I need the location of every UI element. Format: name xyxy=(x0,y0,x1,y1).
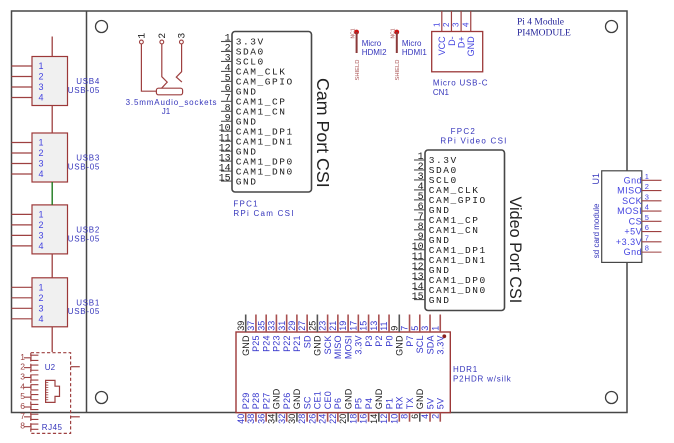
svg-text:GND: GND xyxy=(429,295,451,306)
svg-text:3: 3 xyxy=(39,303,44,313)
svg-text:P3: P3 xyxy=(364,335,374,346)
svg-text:GND: GND xyxy=(236,176,258,187)
svg-text:3.5mmAudio_sockets: 3.5mmAudio_sockets xyxy=(126,98,218,107)
svg-text:USB-05: USB-05 xyxy=(68,307,100,316)
svg-text:HDMI2: HDMI2 xyxy=(362,48,387,57)
svg-text:1: 1 xyxy=(39,61,44,71)
svg-text:P23: P23 xyxy=(272,335,282,352)
svg-text:MISO: MISO xyxy=(617,186,642,196)
connector USB3 (USB-05) xyxy=(12,133,101,182)
svg-text:USB3: USB3 xyxy=(76,154,100,163)
svg-text:+3.3V: +3.3V xyxy=(616,237,642,247)
svg-text:3.3V: 3.3V xyxy=(436,335,446,354)
svg-text:4: 4 xyxy=(461,22,470,27)
svg-text:SHIELD: SHIELD xyxy=(395,60,401,81)
svg-text:Micro: Micro xyxy=(362,39,382,48)
svg-text:35: 35 xyxy=(256,321,266,331)
svg-text:RPi Video CSI: RPi Video CSI xyxy=(440,137,507,146)
svg-text:3: 3 xyxy=(39,231,44,241)
svg-text:P4: P4 xyxy=(364,398,374,409)
svg-text:3: 3 xyxy=(20,371,25,381)
svg-text:Micro: Micro xyxy=(402,39,422,48)
svg-text:GND: GND xyxy=(374,388,384,409)
svg-text:37: 37 xyxy=(246,321,256,331)
mounting hole H4 xyxy=(606,392,618,404)
svg-text:12: 12 xyxy=(379,414,389,424)
svg-text:34: 34 xyxy=(267,414,277,424)
svg-text:28: 28 xyxy=(297,414,307,424)
wire USB4-USB3 xyxy=(51,106,53,134)
svg-text:1: 1 xyxy=(39,210,44,220)
svg-text:GND: GND xyxy=(241,335,251,356)
svg-text:2: 2 xyxy=(20,362,25,372)
svg-text:SCL: SCL xyxy=(415,335,425,353)
svg-text:GND: GND xyxy=(292,388,302,409)
svg-text:2: 2 xyxy=(39,148,44,158)
svg-text:P0: P0 xyxy=(384,335,394,346)
svg-text:GND: GND xyxy=(272,388,282,409)
svg-text:+5V: +5V xyxy=(624,227,642,237)
svg-text:5: 5 xyxy=(645,213,649,222)
svg-text:30: 30 xyxy=(287,414,297,424)
svg-text:4: 4 xyxy=(645,203,649,212)
svg-text:21: 21 xyxy=(328,321,338,331)
svg-text:P27: P27 xyxy=(261,393,271,410)
svg-text:3: 3 xyxy=(420,326,430,331)
svg-text:SCK: SCK xyxy=(622,196,642,206)
svg-text:RX: RX xyxy=(395,396,405,409)
svg-text:Micro USB-C: Micro USB-C xyxy=(433,79,488,88)
svg-text:VCC: VCC xyxy=(437,36,447,56)
connector U2 RJ45 xyxy=(20,352,80,434)
svg-text:Gnd: Gnd xyxy=(624,247,643,257)
svg-text:16: 16 xyxy=(359,414,369,424)
svg-text:P6: P6 xyxy=(333,398,343,409)
svg-text:2: 2 xyxy=(39,220,44,230)
svg-text:PI4MODULE: PI4MODULE xyxy=(517,29,571,39)
svg-text:3: 3 xyxy=(39,159,44,169)
svg-text:J1: J1 xyxy=(162,107,171,116)
svg-text:9: 9 xyxy=(389,326,399,331)
svg-text:HDR1: HDR1 xyxy=(453,365,478,374)
svg-text:1: 1 xyxy=(430,326,440,331)
svg-text:MOSI: MOSI xyxy=(343,335,353,359)
svg-text:8: 8 xyxy=(400,414,410,419)
svg-text:3: 3 xyxy=(452,22,461,27)
svg-text:6: 6 xyxy=(410,414,420,419)
svg-text:11: 11 xyxy=(379,321,389,330)
wire USB1-U2 xyxy=(51,327,53,352)
wire USB3-USB2 (green net) xyxy=(51,182,53,205)
svg-text:15: 15 xyxy=(359,321,369,331)
svg-text:22: 22 xyxy=(328,414,338,424)
svg-text:7: 7 xyxy=(20,411,25,421)
svg-text:1: 1 xyxy=(137,33,148,39)
svg-text:4: 4 xyxy=(39,93,44,103)
svg-text:USB4: USB4 xyxy=(76,77,100,86)
svg-text:2: 2 xyxy=(39,293,44,303)
svg-text:5V: 5V xyxy=(436,398,446,409)
svg-text:5V: 5V xyxy=(425,398,435,409)
mounting hole H1 xyxy=(96,21,108,33)
svg-text:1: 1 xyxy=(39,282,44,292)
svg-text:P5: P5 xyxy=(354,398,364,409)
svg-text:3.3V: 3.3V xyxy=(354,335,364,354)
svg-text:15: 15 xyxy=(219,173,231,184)
svg-text:SCK: SCK xyxy=(323,335,333,354)
svg-text:NC1: NC1 xyxy=(391,28,397,38)
svg-text:P24: P24 xyxy=(261,335,271,352)
svg-text:P2: P2 xyxy=(374,335,384,346)
wire USB2-USB1 xyxy=(51,254,53,278)
connector HDR1 P2HDR w/silk xyxy=(236,315,512,424)
svg-text:26: 26 xyxy=(307,414,317,424)
svg-text:3: 3 xyxy=(645,192,649,201)
connector Micro HDMI2 xyxy=(350,28,387,80)
svg-text:29: 29 xyxy=(287,321,297,331)
svg-text:5: 5 xyxy=(20,391,25,401)
svg-text:Pi 4 Module: Pi 4 Module xyxy=(517,18,564,28)
svg-text:MISO: MISO xyxy=(333,335,343,359)
mounting hole H2 xyxy=(606,21,618,33)
connector USB4 (USB-05) xyxy=(12,57,101,106)
IC U1 sd card module xyxy=(591,171,662,263)
svg-text:1: 1 xyxy=(645,172,649,181)
svg-text:4: 4 xyxy=(39,241,44,251)
svg-text:20: 20 xyxy=(338,414,348,424)
svg-text:MOSI: MOSI xyxy=(617,206,642,216)
svg-text:USB-05: USB-05 xyxy=(68,162,100,171)
svg-text:D+: D+ xyxy=(456,36,466,48)
svg-text:Video Port CSI: Video Port CSI xyxy=(506,197,524,304)
svg-text:39: 39 xyxy=(236,321,246,331)
svg-text:32: 32 xyxy=(277,414,287,424)
svg-text:8: 8 xyxy=(20,421,25,431)
svg-text:FPC2: FPC2 xyxy=(451,127,476,136)
svg-text:USB2: USB2 xyxy=(76,226,100,235)
svg-text:14: 14 xyxy=(369,414,379,424)
connector FPC2 RPi Video CSI xyxy=(412,127,524,311)
title Pi 4 Module xyxy=(517,18,571,39)
svg-text:CS: CS xyxy=(629,216,643,226)
svg-text:33: 33 xyxy=(267,321,277,331)
svg-text:P26: P26 xyxy=(282,393,292,410)
svg-text:4: 4 xyxy=(39,169,44,179)
svg-text:sd card module: sd card module xyxy=(592,203,601,258)
svg-text:2: 2 xyxy=(645,182,649,191)
svg-text:GND: GND xyxy=(466,36,476,57)
svg-text:13: 13 xyxy=(369,321,379,331)
svg-text:U2: U2 xyxy=(45,363,56,372)
svg-text:31: 31 xyxy=(277,321,287,331)
svg-text:GND: GND xyxy=(395,335,405,356)
svg-text:27: 27 xyxy=(297,321,307,331)
svg-text:1: 1 xyxy=(20,352,25,362)
svg-text:1: 1 xyxy=(432,22,441,27)
svg-text:P22: P22 xyxy=(282,335,292,352)
svg-text:CE0: CE0 xyxy=(323,391,333,409)
svg-text:USB1: USB1 xyxy=(76,298,100,307)
svg-text:TX: TX xyxy=(405,397,415,409)
svg-text:17: 17 xyxy=(348,321,358,331)
svg-text:19: 19 xyxy=(338,321,348,331)
svg-text:RJ45: RJ45 xyxy=(42,423,63,432)
svg-text:SD: SD xyxy=(302,335,312,348)
mounting hole H3 xyxy=(96,392,108,404)
svg-text:USB-05: USB-05 xyxy=(68,86,100,95)
svg-text:SC: SC xyxy=(302,396,312,409)
svg-text:4: 4 xyxy=(20,381,25,391)
connector USB2 (USB-05) xyxy=(12,205,101,254)
svg-text:P25: P25 xyxy=(251,335,261,352)
svg-text:25: 25 xyxy=(307,321,317,331)
svg-text:23: 23 xyxy=(318,321,328,331)
connector J1 3.5mmAudio_sockets xyxy=(126,33,218,116)
svg-text:2: 2 xyxy=(442,22,451,27)
svg-text:GND: GND xyxy=(313,335,323,356)
svg-text:36: 36 xyxy=(256,414,266,424)
svg-text:2: 2 xyxy=(39,72,44,82)
svg-text:6: 6 xyxy=(20,401,25,411)
svg-text:18: 18 xyxy=(348,414,358,424)
svg-text:15: 15 xyxy=(412,292,424,303)
svg-text:3: 3 xyxy=(177,33,188,39)
svg-text:8: 8 xyxy=(645,244,649,253)
svg-text:2: 2 xyxy=(158,33,169,39)
svg-text:Cam Port CSI: Cam Port CSI xyxy=(313,78,333,188)
svg-text:3: 3 xyxy=(39,82,44,92)
svg-text:P29: P29 xyxy=(241,393,251,410)
svg-text:NC1: NC1 xyxy=(350,28,356,38)
svg-text:GND: GND xyxy=(343,388,353,409)
svg-text:4: 4 xyxy=(39,314,44,324)
svg-text:4: 4 xyxy=(420,414,430,419)
svg-text:40: 40 xyxy=(236,414,246,424)
svg-text:RPi Cam CSI: RPi Cam CSI xyxy=(233,209,294,218)
svg-text:1: 1 xyxy=(39,138,44,148)
connector FPC1 RPi Cam CSI xyxy=(219,32,333,219)
svg-text:P2HDR w/silk: P2HDR w/silk xyxy=(453,374,512,383)
svg-text:CN1: CN1 xyxy=(433,88,450,97)
svg-text:7: 7 xyxy=(400,326,410,331)
connector CN1 Micro USB-C xyxy=(432,11,489,97)
svg-text:7: 7 xyxy=(645,233,649,242)
svg-text:USB-05: USB-05 xyxy=(68,234,100,243)
svg-text:U1: U1 xyxy=(591,173,601,185)
svg-text:10: 10 xyxy=(389,414,399,424)
connector USB1 (USB-05) xyxy=(12,278,101,327)
svg-text:P28: P28 xyxy=(251,393,261,410)
svg-text:SHIELD: SHIELD xyxy=(355,60,361,81)
svg-text:24: 24 xyxy=(318,414,328,424)
svg-text:5: 5 xyxy=(410,326,420,331)
wire USB4 top stub xyxy=(51,37,53,57)
svg-text:FPC1: FPC1 xyxy=(233,200,258,209)
svg-text:P1: P1 xyxy=(384,398,394,409)
svg-text:P21: P21 xyxy=(292,335,302,352)
svg-text:CE1: CE1 xyxy=(313,391,323,409)
svg-text:6: 6 xyxy=(645,223,649,232)
svg-text:HDMI1: HDMI1 xyxy=(402,48,427,57)
svg-text:GND: GND xyxy=(415,388,425,409)
svg-text:SDA: SDA xyxy=(425,335,435,354)
connector Micro HDMI1 xyxy=(391,28,428,80)
svg-text:D-: D- xyxy=(447,36,457,46)
svg-text:Gnd: Gnd xyxy=(624,175,643,185)
svg-text:2: 2 xyxy=(430,414,440,419)
svg-text:38: 38 xyxy=(246,414,256,424)
svg-text:P7: P7 xyxy=(405,335,415,346)
